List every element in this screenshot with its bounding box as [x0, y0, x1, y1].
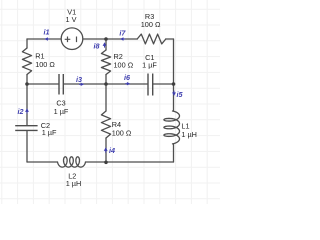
- svg-text:1 µF: 1 µF: [42, 128, 57, 137]
- svg-text:1 µH: 1 µH: [66, 179, 82, 188]
- svg-text:100 Ω: 100 Ω: [141, 20, 161, 29]
- svg-text:100 Ω: 100 Ω: [35, 60, 55, 69]
- svg-text:i6: i6: [124, 73, 131, 82]
- svg-text:100 Ω: 100 Ω: [114, 61, 134, 70]
- svg-text:1 V: 1 V: [66, 15, 77, 24]
- svg-text:1 µF: 1 µF: [54, 107, 69, 116]
- svg-text:i3: i3: [76, 75, 82, 84]
- svg-text:100 Ω: 100 Ω: [112, 128, 132, 137]
- svg-text:i1: i1: [44, 27, 50, 36]
- svg-text:1 µF: 1 µF: [142, 61, 157, 70]
- svg-text:i4: i4: [109, 146, 115, 155]
- svg-text:1 µH: 1 µH: [181, 130, 197, 139]
- svg-text:i7: i7: [119, 28, 126, 37]
- svg-text:i8: i8: [94, 41, 100, 50]
- svg-text:i2: i2: [18, 107, 24, 116]
- svg-text:i5: i5: [177, 90, 184, 99]
